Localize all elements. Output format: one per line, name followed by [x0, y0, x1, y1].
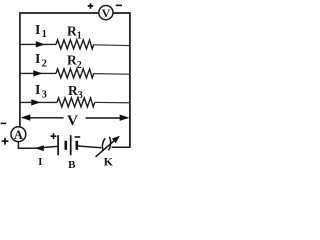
- resistor R1: [56, 40, 94, 49]
- svg-text:I: I: [35, 52, 40, 67]
- svg-text:R: R: [68, 83, 78, 98]
- wire key to right corner: [112, 146, 130, 148]
- wire left vertical: [19, 12, 21, 127]
- svg-text:I: I: [35, 83, 40, 98]
- wire ammeter to battery: [18, 142, 57, 149]
- resistor R3: [57, 98, 95, 107]
- svg-text:1: 1: [42, 29, 47, 40]
- wire branch 2: [20, 72, 56, 74]
- svg-text:1: 1: [77, 31, 82, 42]
- svg-text:B: B: [68, 159, 76, 171]
- current arrow I3: [31, 99, 40, 105]
- wire top right segment: [113, 12, 131, 14]
- ammeter plus terminal label: [2, 138, 9, 145]
- svg-text:K: K: [104, 155, 114, 169]
- wire battery to key: [78, 146, 102, 148]
- svg-text:I: I: [35, 23, 40, 38]
- wire branch 3: [20, 101, 57, 103]
- battery B: [58, 135, 77, 155]
- svg-text:I: I: [38, 157, 42, 168]
- key K arrow: [96, 140, 115, 156]
- node V voltage arrow right: [86, 117, 128, 119]
- wire right vertical: [129, 12, 131, 148]
- svg-text:V: V: [67, 112, 78, 129]
- svg-text:A: A: [14, 128, 23, 142]
- svg-text:R: R: [67, 24, 77, 39]
- wire top left segment: [20, 12, 99, 14]
- voltmeter plus terminal label: [88, 3, 94, 9]
- svg-text:3: 3: [78, 90, 83, 101]
- svg-text:V: V: [102, 6, 111, 20]
- svg-text:2: 2: [77, 60, 82, 71]
- current arrow I2: [33, 70, 42, 76]
- resistor R2: [56, 69, 94, 78]
- svg-text:2: 2: [42, 59, 47, 70]
- current arrow I1: [36, 41, 45, 47]
- current arrow I: [35, 145, 44, 151]
- battery plus label: [51, 133, 57, 139]
- voltmeter minus terminal label: [116, 4, 122, 6]
- battery minus label: [75, 136, 81, 138]
- wire branch 2 right: [94, 73, 130, 76]
- key K left contact: [102, 138, 105, 151]
- voltmeter V: [99, 6, 113, 20]
- wire branch 3 right: [95, 101, 130, 103]
- ammeter A: [11, 127, 26, 142]
- wire branch 1 right: [94, 44, 130, 47]
- svg-text:R: R: [67, 53, 77, 68]
- key K right contact: [108, 137, 110, 150]
- svg-text:3: 3: [42, 90, 47, 101]
- ammeter minus terminal label: [1, 122, 7, 124]
- wire branch 1: [20, 43, 56, 45]
- node V voltage arrow left: [22, 117, 64, 119]
